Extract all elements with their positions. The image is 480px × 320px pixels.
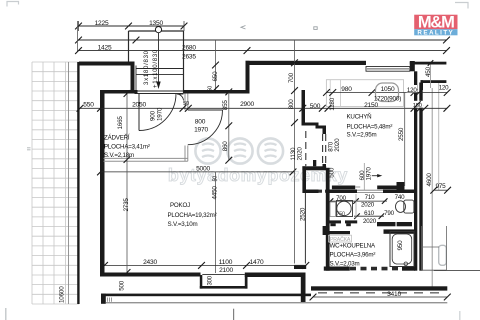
svg-text:1050: 1050 <box>381 86 395 93</box>
svg-text:550: 550 <box>83 102 94 109</box>
svg-text:+1x100/830: +1x100/830 <box>152 49 159 88</box>
svg-text:1720(900): 1720(900) <box>374 95 401 102</box>
hall south wall jog <box>323 226 327 235</box>
kitchen sliding door arrow <box>372 175 380 177</box>
dim vertical x127 <box>126 94 128 273</box>
neighbour wall corner <box>421 80 424 90</box>
stray mark a <box>241 26 246 30</box>
stair door hook <box>177 94 184 101</box>
dim vertical x228.8 <box>228 92 230 160</box>
svg-text:1100: 1100 <box>219 259 233 266</box>
svg-text:300: 300 <box>208 275 214 285</box>
svg-text:2735: 2735 <box>123 198 130 212</box>
zadveri north wall left <box>100 90 138 94</box>
staircase block with up-arrow <box>129 30 184 32</box>
dim line 4600 vertical <box>431 88 433 287</box>
dim vertical x404.7 <box>404 93 406 187</box>
terrace outline <box>421 226 423 270</box>
duct wall west leaf <box>414 71 417 270</box>
pokoj east wall upper <box>302 90 306 123</box>
svg-text:S.V.=3,10m: S.V.=3,10m <box>168 221 198 228</box>
svg-text:700: 700 <box>336 195 346 202</box>
svg-text:3410: 3410 <box>387 291 401 298</box>
svg-text:S.V.=2,18m: S.V.=2,18m <box>104 152 134 159</box>
bathtub <box>390 232 414 267</box>
dim chain y108 <box>100 107 447 109</box>
toilet <box>404 200 414 213</box>
svg-text:2100: 2100 <box>219 267 233 274</box>
bathroom north wall dashes <box>319 190 328 193</box>
svg-text:WC+KOUPELNA: WC+KOUPELNA <box>330 243 376 250</box>
pokoj east wall jamb lower <box>323 164 327 167</box>
svg-text:REALITY: REALITY <box>417 29 454 36</box>
ext line x364.3 <box>363 163 365 190</box>
duct wall east leaf <box>419 83 422 271</box>
svg-text:ZÁDVEŘÍ: ZÁDVEŘÍ <box>104 133 130 141</box>
svg-text:5000: 5000 <box>196 166 210 173</box>
terrace hidden dashes <box>318 292 446 294</box>
stair-side dim 650 <box>215 40 217 91</box>
entry north wall <box>79 62 135 66</box>
svg-text:1225: 1225 <box>95 20 109 27</box>
kitchen counter <box>326 80 403 107</box>
laundry partition dash a <box>330 223 335 226</box>
pokoj door 800 leaf and swing <box>188 109 223 111</box>
svg-text:KUCHYŇ: KUCHYŇ <box>347 113 372 120</box>
apartment top wall centre <box>246 61 367 65</box>
bathroom south wall dashed <box>350 267 402 271</box>
bottom centre mark <box>233 309 235 320</box>
svg-text:700: 700 <box>288 72 295 83</box>
laundry partition wall d <box>397 222 412 226</box>
kitchen window pier <box>410 61 415 71</box>
bath dim 610 <box>354 215 384 217</box>
svg-text:2900: 2900 <box>240 101 254 108</box>
kitchen counter left edge <box>329 80 331 107</box>
sliding door guide line <box>355 186 360 188</box>
ext line left x77.4 <box>76 21 78 52</box>
terrace corner hatch <box>107 298 109 302</box>
niche west jamb <box>200 275 203 289</box>
svg-text:2520: 2520 <box>300 207 307 221</box>
watermark circles and text <box>168 138 348 185</box>
hatch right edge wall <box>77 62 79 304</box>
edge line right of bathroom <box>434 270 480 272</box>
pokoj niche top wall <box>302 166 326 170</box>
pracka box <box>329 235 352 242</box>
terrace wall right <box>311 286 447 290</box>
svg-text:POKOJ: POKOJ <box>170 202 190 209</box>
svg-text:740: 740 <box>395 194 405 201</box>
svg-text:120: 120 <box>439 84 449 91</box>
svg-text:500: 500 <box>310 103 321 110</box>
svg-text:2020: 2020 <box>363 218 377 225</box>
svg-text:1970: 1970 <box>365 167 372 181</box>
zadveri east partition lower <box>184 146 186 162</box>
svg-text:PLOCHA=5,48m²: PLOCHA=5,48m² <box>347 124 393 131</box>
hall west wall <box>302 166 306 193</box>
bath dim 700-710 <box>331 200 388 202</box>
washing machine <box>337 201 353 217</box>
laundry partition wall b <box>345 220 357 223</box>
ext line 450 <box>430 65 432 89</box>
svg-text:2020: 2020 <box>297 147 304 161</box>
svg-text:980: 980 <box>341 86 352 93</box>
svg-text:50: 50 <box>183 101 189 107</box>
bathroom south wall east <box>402 267 415 271</box>
svg-text:4450: 4450 <box>212 186 219 200</box>
svg-text:2635: 2635 <box>182 53 196 60</box>
kitchen south wall column <box>397 182 405 191</box>
svg-text:1350: 1350 <box>149 20 163 27</box>
wc partition wall <box>384 229 415 233</box>
pokoj south wall west <box>100 273 201 277</box>
label 120 duct <box>407 85 418 92</box>
svg-text:975: 975 <box>435 183 446 190</box>
svg-text:900: 900 <box>149 110 156 121</box>
stray mark c <box>27 147 31 149</box>
hatch 10600 dim line <box>68 62 70 304</box>
entry door 900 leaf and swing <box>138 94 140 131</box>
opening jamb stub <box>313 160 316 166</box>
svg-text:2430: 2430 <box>143 259 157 266</box>
svg-text:650: 650 <box>212 71 219 82</box>
pokoj step wall 1 <box>302 123 319 126</box>
svg-text:S.V.=2,95m: S.V.=2,95m <box>347 132 377 139</box>
bathroom north wall east piece <box>383 190 414 194</box>
svg-text:4600: 4600 <box>426 173 433 187</box>
niche east jamb <box>245 275 248 289</box>
dim 3410 <box>313 296 447 298</box>
terrace wall left <box>101 294 311 297</box>
svg-text:1470: 1470 <box>250 259 264 266</box>
callout box 1050 <box>376 83 399 102</box>
kitchen south wall west <box>332 186 355 190</box>
svg-text:PLOCHA=3,41m²: PLOCHA=3,41m² <box>104 143 150 150</box>
niche bottom wall <box>200 286 248 289</box>
bathroom north wall centre <box>327 190 357 194</box>
pokoj south wall east <box>245 273 306 278</box>
svg-text:2150: 2150 <box>364 102 378 109</box>
svg-text:PLOCHA=3,96m²: PLOCHA=3,96m² <box>330 252 376 259</box>
zadveri north wall right of door <box>184 90 250 94</box>
svg-text:2020: 2020 <box>361 202 375 209</box>
bathroom north wall west piece <box>306 190 319 194</box>
bathroom south wall west <box>324 267 350 271</box>
top-left gray mark <box>7 2 19 7</box>
svg-text:1970: 1970 <box>194 126 208 133</box>
dim 975 <box>434 189 448 191</box>
laundry partition dash b <box>346 223 351 226</box>
dim chain bottom y265 <box>105 264 307 266</box>
bath ext line <box>355 194 357 218</box>
zadveri east partition upper <box>184 94 186 111</box>
tick 450 top <box>428 60 434 66</box>
svg-text:790: 790 <box>384 210 394 217</box>
svg-text:PLOCHA=19,32m²: PLOCHA=19,32m² <box>168 212 217 219</box>
svg-text:120: 120 <box>407 87 417 94</box>
svg-text:1970: 1970 <box>157 107 164 121</box>
neighbour wall east <box>421 80 447 83</box>
zadveri south partition <box>104 157 188 159</box>
bathroom door 710 opening <box>357 189 383 191</box>
svg-text:800: 800 <box>195 119 206 126</box>
dim line 2635 <box>79 50 447 52</box>
kitchen window frame <box>366 67 410 72</box>
top wall corner vertical <box>246 61 250 91</box>
terrace thin edge line <box>106 302 447 304</box>
laundry partition wall a <box>327 220 341 223</box>
ext line x438.75 <box>438 83 440 190</box>
svg-text:2020: 2020 <box>334 138 341 152</box>
svg-text:PRAČKA: PRAČKA <box>330 236 351 243</box>
svg-text:710: 710 <box>365 194 375 201</box>
svg-text:800: 800 <box>288 99 295 110</box>
laundry partition wall c <box>377 222 396 226</box>
hall east thin line <box>304 193 306 264</box>
svg-text:S.V.=2,03m: S.V.=2,03m <box>330 261 360 268</box>
svg-text:860: 860 <box>222 141 229 152</box>
pokoj step wall 2 <box>316 126 327 129</box>
logo M&M red <box>414 15 457 30</box>
svg-text:2050: 2050 <box>132 102 146 109</box>
logo REALITY blue <box>414 29 457 35</box>
bottom-right gray tick <box>459 311 461 320</box>
stray mark b <box>314 27 317 30</box>
svg-text:1665: 1665 <box>117 116 124 130</box>
niche sill line <box>202 274 245 276</box>
dim line 1425/2680 <box>79 39 447 41</box>
svg-text:950: 950 <box>397 240 404 251</box>
wc partition left <box>327 231 350 234</box>
pokoj SE corner wall <box>301 277 306 302</box>
svg-text:855: 855 <box>222 100 229 111</box>
laundry sink <box>330 202 336 217</box>
hatch grid of adjacent staircase shaft <box>32 62 79 304</box>
apartment top wall right <box>410 62 447 65</box>
dim chain kitchen y92.5 <box>326 92 448 94</box>
top-right gray mark <box>455 3 468 9</box>
wall opening dashes <box>305 131 307 166</box>
terrace corner block <box>101 294 106 304</box>
terrace door leaf gray <box>439 245 447 265</box>
bathroom west wall <box>326 168 330 271</box>
svg-text:500: 500 <box>329 167 336 178</box>
svg-text:1180: 1180 <box>329 97 336 110</box>
dim line 1225/1350 <box>79 25 185 27</box>
dim vertical x294.5 <box>294 40 296 264</box>
svg-text:750: 750 <box>336 211 345 217</box>
svg-text:500: 500 <box>119 280 126 291</box>
closet stub wall <box>294 265 306 269</box>
svg-text:2550: 2550 <box>398 127 405 141</box>
pokoj east wall jamb upper <box>323 129 327 135</box>
svg-text:450: 450 <box>425 66 432 77</box>
bottom-left gray tick <box>5 308 7 320</box>
label 150 <box>412 101 423 108</box>
kitchen south wall east <box>377 186 404 190</box>
svg-text:10600: 10600 <box>59 286 66 303</box>
svg-text:610: 610 <box>364 210 374 217</box>
entry east wall of stair lobby <box>131 62 135 94</box>
apartment west wall <box>100 90 105 277</box>
svg-text:3x180/830: 3x180/830 <box>143 50 150 85</box>
dim 5000 <box>101 171 296 173</box>
dim vertical x215 <box>215 172 217 273</box>
